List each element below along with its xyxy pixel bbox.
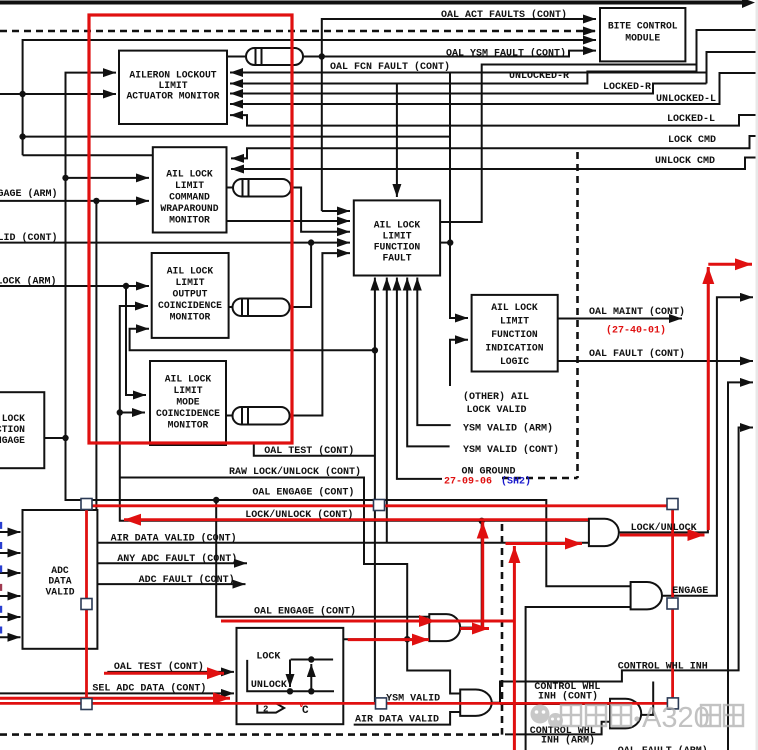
- svg-text:MONITOR: MONITOR: [169, 215, 210, 226]
- blue edge fragments: [0, 522, 2, 634]
- svg-text:LOCK: LOCK: [256, 652, 280, 663]
- svg-text:LOCK/UNLOCK: LOCK/UNLOCK: [631, 522, 697, 534]
- svg-text:UNLOCKED-L: UNLOCKED-L: [656, 94, 716, 105]
- junction J11: [447, 239, 453, 245]
- wire vertical to ADC box: [95, 201, 97, 510]
- junction J14: [479, 518, 485, 524]
- wire OAL TEST (CONT) upper: [254, 443, 375, 456]
- junction J10: [372, 347, 378, 353]
- svg-text:MONITOR: MONITOR: [168, 420, 209, 431]
- svg-text:OAL YSM FAULT (CONT): OAL YSM FAULT (CONT): [446, 48, 566, 60]
- svg-text:CONTROL WHL INH: CONTROL WHL INH: [618, 662, 708, 673]
- svg-text:FAULT: FAULT: [382, 253, 411, 264]
- box AILERON LOCKOUT LIMIT ACTUATOR MONITOR: [119, 51, 227, 124]
- wire wraparound monitor input1: [66, 177, 150, 179]
- wire LOCK (ARM) from left edge: [0, 285, 149, 287]
- wire third BITE input: [23, 40, 596, 155]
- red continuation to vertical: [436, 620, 514, 623]
- wire FF box output stub: [440, 242, 450, 244]
- wire output coincidence input3 jog: [130, 329, 375, 351]
- selection handles: [81, 499, 678, 710]
- wire ADC input 3: [0, 572, 21, 574]
- wire gate2 output stub: [492, 702, 500, 704]
- red vertical up right: [707, 267, 710, 530]
- wire LOCKED-R: [230, 84, 707, 94]
- box AIL LOCK LIMIT FUNCTION FAULT: [354, 200, 440, 275]
- wire aileron monitor input2 from left edge: [0, 93, 116, 95]
- box BITE CONTROL MODULE: [600, 8, 685, 61]
- wire node to FF input1: [322, 210, 350, 212]
- wire ADC input 2: [0, 552, 21, 554]
- wire OAL ENGAGE lower run: [216, 500, 429, 617]
- latch node dot b: [308, 688, 314, 694]
- svg-text:LIMIT: LIMIT: [500, 316, 529, 327]
- junction J5: [93, 198, 99, 204]
- wire engage gate output to right edge: [662, 297, 753, 595]
- svg-text:AIR DATA VALID: AIR DATA VALID: [355, 715, 439, 726]
- svg-text:AIL LOCK: AIL LOCK: [165, 374, 212, 385]
- svg-text:WRAPAROUND: WRAPAROUND: [160, 203, 218, 214]
- svg-text:2: 2: [263, 705, 268, 715]
- handle 3: [667, 499, 678, 510]
- wire ADC input 6: [0, 636, 21, 638]
- svg-text:YSM VALID (CONT): YSM VALID (CONT): [463, 444, 559, 456]
- wire gate3 output up: [641, 682, 653, 715]
- and gate ENGAGE: [631, 582, 662, 609]
- red OAL TEST arrow: [104, 672, 224, 675]
- svg-text:UNLOCKED-R: UNLOCKED-R: [509, 71, 569, 82]
- wire AIR DATA VALID long path to gate2: [97, 542, 589, 544]
- blue mark 5: [0, 606, 2, 613]
- svg-text:LIMIT: LIMIT: [173, 385, 202, 396]
- wire wraparound output1 through delay: [227, 188, 351, 232]
- svg-text:COINCIDENCE: COINCIDENCE: [156, 408, 220, 419]
- svg-text:LOCK/UNLOCK (CONT): LOCK/UNLOCK (CONT): [245, 509, 353, 521]
- junction J12: [404, 636, 410, 642]
- and gate G1: [429, 614, 460, 641]
- svg-text:ENGAGE: ENGAGE: [672, 586, 708, 597]
- svg-text:MODE: MODE: [176, 397, 199, 408]
- dashed separators: [0, 152, 578, 735]
- svg-text:LOCKED-L: LOCKED-L: [667, 114, 715, 125]
- wire VALID (CONT) from left edge: [0, 242, 350, 244]
- latch set arrow down: [289, 660, 291, 688]
- wire UNLOCKED-L: [230, 73, 758, 104]
- svg-text:OAL MAINT (CONT): OAL MAINT (CONT): [589, 306, 685, 318]
- wire FF output to top right: [440, 65, 696, 223]
- svg-text:LOGIC: LOGIC: [500, 356, 529, 367]
- svg-text:LOCKED-R: LOCKED-R: [603, 82, 651, 93]
- wire control whl inh vertical a3: [728, 382, 753, 750]
- junction J2: [19, 133, 25, 139]
- svg-text:BITE CONTROL: BITE CONTROL: [608, 21, 678, 32]
- svg-text:AIL LOCK: AIL LOCK: [374, 220, 421, 231]
- svg-text:OAL ACT FAULTS (CONT): OAL ACT FAULTS (CONT): [441, 9, 567, 21]
- wire right edge exit y30: [697, 30, 758, 72]
- wire aileron monitor input1 / engage vertical: [66, 73, 631, 587]
- wire OAL FCN FAULT row: [230, 72, 707, 74]
- wire ENGAGE (ARM) from left edge: [0, 200, 149, 202]
- blue mark 2: [0, 542, 2, 549]
- wire control whl inh (arm) jog: [505, 722, 610, 735]
- svg-text:INDICATION: INDICATION: [485, 343, 543, 354]
- latch reset arrow up: [310, 664, 312, 691]
- junction J6: [123, 283, 129, 289]
- svg-text:UNLOCK CMD: UNLOCK CMD: [655, 156, 715, 167]
- box AIL LOCK LIMIT OUTPUT COINCIDENCE MONITOR: [152, 253, 229, 338]
- svg-text:OAL ENGAGE (CONT): OAL ENGAGE (CONT): [252, 487, 354, 499]
- wire output coincidence delay output: [229, 243, 312, 307]
- box AIL LOCK FUNCTION ENGAGE (clipped left): [0, 392, 44, 468]
- red vertical on gate1 feed: [481, 522, 484, 629]
- handle 7: [376, 698, 387, 709]
- wire AIR DATA VALID underline into gate2: [354, 712, 461, 725]
- svg-text:OAL ENGAGE (CONT): OAL ENGAGE (CONT): [254, 606, 356, 618]
- wire wraparound output2: [227, 220, 351, 222]
- wire mode monitor delay output: [226, 253, 350, 415]
- delay capsule D1: [246, 48, 303, 65]
- wire ADC FAULT (CONT): [97, 583, 245, 585]
- wire FF bottom net4 to YSM VALID (CONT): [407, 278, 449, 447]
- svg-text:FUNCTION: FUNCTION: [0, 424, 25, 435]
- junction J13: [213, 497, 219, 503]
- handle 1: [81, 499, 92, 510]
- handle 6: [81, 699, 92, 710]
- svg-text:FUNCTION: FUNCTION: [374, 242, 421, 253]
- wire control whl inh net to right edge arrow a4: [500, 428, 753, 703]
- delay capsule D4: [233, 407, 290, 425]
- latch node dot a: [287, 688, 293, 694]
- blue mark 4: [0, 584, 2, 591]
- junction J8: [319, 53, 325, 59]
- delay capsule D3: [233, 299, 290, 317]
- junction J3: [62, 175, 68, 181]
- wire FF bottom net1 down to YSM row: [375, 278, 460, 704]
- junction J7: [117, 409, 123, 415]
- latch top rail: [291, 659, 334, 661]
- latch input bracket: [247, 660, 334, 691]
- wire aileron monitor delay output / OAL YSM FAULT: [227, 51, 596, 57]
- red LOCK/UNLOCK (CONT) arrow left: [124, 518, 588, 521]
- svg-text:VALID (CONT): VALID (CONT): [0, 232, 58, 244]
- red arrow into lock/unlock gate: [506, 542, 583, 545]
- svg-text:MONITOR: MONITOR: [170, 312, 211, 323]
- svg-text:LIMIT: LIMIT: [382, 231, 411, 242]
- svg-text:VALID: VALID: [45, 587, 74, 598]
- red lock/unlock output arrow: [620, 534, 705, 537]
- svg-text:RAW LOCK/UNLOCK (CONT): RAW LOCK/UNLOCK (CONT): [229, 466, 361, 478]
- red SEL ADC DATA arrow: [0, 697, 230, 700]
- svg-text:OAL FCN FAULT (CONT): OAL FCN FAULT (CONT): [330, 61, 450, 73]
- and gate LOCK/UNLOCK: [589, 519, 619, 546]
- latch node dot c: [308, 656, 314, 662]
- wire UNLOCKED-R: [230, 72, 697, 84]
- wire ADC input 5: [0, 616, 21, 618]
- wire FF bottom net2 to lock/unlock gate: [386, 278, 388, 543]
- wire SEL ADC DATA (CONT) into latch: [0, 692, 234, 694]
- red vertical annotation center: [513, 546, 516, 750]
- svg-text:MODULE: MODULE: [625, 33, 660, 44]
- svg-text:v: v: [299, 701, 304, 710]
- svg-text:COINCIDENCE: COINCIDENCE: [158, 300, 222, 311]
- svg-text:LOCK VALID: LOCK VALID: [467, 405, 527, 416]
- box AIL LOCK LIMIT MODE COINCIDENCE MONITOR: [150, 361, 226, 445]
- red vertical left annotation: [85, 504, 88, 704]
- svg-text:INH (ARM): INH (ARM): [541, 735, 595, 747]
- watermark: [531, 702, 744, 734]
- wire OAL FAULT (CONT) output: [558, 360, 753, 362]
- wire ADC input 1: [0, 531, 21, 533]
- handle 5: [667, 598, 678, 609]
- wire lock/unlock output under red: [619, 268, 708, 532]
- svg-text:LOCK CMD: LOCK CMD: [668, 135, 716, 146]
- wire FF bottom net3 to ON GROUND: [397, 278, 442, 479]
- wire (OTHER) AIL LOCK VALID to indication input2: [450, 340, 468, 386]
- box LOCK UNLOCK latch: [237, 628, 344, 724]
- svg-text:YSM VALID (ARM): YSM VALID (ARM): [463, 423, 553, 435]
- delay capsule D2: [233, 179, 291, 197]
- svg-text:OAL TEST (CONT): OAL TEST (CONT): [264, 445, 354, 457]
- svg-text:SEL ADC DATA (CONT): SEL ADC DATA (CONT): [92, 683, 206, 695]
- svg-text:AIR DATA VALID (CONT): AIR DATA VALID (CONT): [111, 533, 237, 545]
- wire OAL FCN FAULT branch to indication logic input1: [450, 73, 468, 319]
- svg-text:OUTPUT: OUTPUT: [173, 289, 208, 300]
- svg-text:ENGAGE: ENGAGE: [0, 435, 25, 446]
- svg-text:FUNCTION: FUNCTION: [491, 329, 538, 340]
- box AIL LOCK LIMIT COMMAND WRAPAROUND MONITOR: [153, 147, 227, 232]
- red line along OAL ENGAGE row: [87, 504, 673, 507]
- wire ADC input 4: [0, 595, 21, 597]
- wire UNLOCK CMD: [231, 158, 758, 170]
- svg-text:ADC FAULT (CONT): ADC FAULT (CONT): [139, 574, 235, 586]
- svg-text:AIL LOCK: AIL LOCK: [167, 266, 214, 277]
- wire gate1 output up to engage row: [460, 521, 481, 628]
- blue mark 6: [0, 627, 2, 634]
- wire left box output: [44, 437, 65, 439]
- box ADC DATA VALID: [23, 510, 98, 649]
- svg-text:(OTHER) AIL: (OTHER) AIL: [463, 391, 529, 403]
- wire FF top input: [396, 84, 398, 198]
- junction J1: [19, 91, 25, 97]
- svg-text:OAL FAULT (CONT): OAL FAULT (CONT): [589, 348, 685, 360]
- wire engage gate lower input from bottom edge: [526, 607, 631, 750]
- handle 2: [374, 500, 385, 511]
- page margin strip: [756, 0, 758, 750]
- svg-text:UNLOCK: UNLOCK: [251, 680, 287, 691]
- svg-text:ADC: ADC: [51, 565, 69, 576]
- wire mode monitor input2: [120, 412, 145, 414]
- and gate G3 control whl inh: [610, 699, 641, 729]
- svg-text:AIL LOCK: AIL LOCK: [491, 302, 538, 313]
- wire OAL ACT FAULTS (CONT): [322, 19, 596, 211]
- junction J9: [308, 239, 314, 245]
- red latch output arrow: [348, 638, 429, 641]
- dashed vertical sheet divider: [576, 152, 579, 478]
- red gate1 output arrow: [460, 627, 489, 630]
- svg-text:AIL LOCK: AIL LOCK: [166, 169, 213, 180]
- wire LOCKED-L: [230, 115, 758, 126]
- svg-text:LIMIT: LIMIT: [175, 180, 204, 191]
- svg-text:INH (CONT): INH (CONT): [538, 691, 598, 703]
- and gate G2 ysm/airdata: [460, 690, 492, 716]
- wire FF bottom net5 to YSM VALID (ARM): [417, 278, 450, 426]
- wire latch output to and gate: [343, 638, 429, 640]
- red OAL ENGAGE arrow to gate1: [221, 620, 436, 623]
- wire OAL MAINT (CONT) output: [558, 318, 682, 320]
- box texts: [0, 21, 678, 598]
- latch internals: [247, 660, 334, 692]
- wire control whl inh (cont) row: [500, 703, 610, 705]
- svg-text:LIMIT: LIMIT: [158, 80, 187, 91]
- box AIL LOCK LIMIT FUNCTION INDICATION LOGIC: [472, 295, 558, 372]
- svg-text:(27-40-01): (27-40-01): [606, 325, 666, 337]
- svg-text:YSM VALID: YSM VALID: [386, 694, 440, 705]
- svg-text:AIL LOCK: AIL LOCK: [0, 413, 25, 424]
- svg-text:DATA: DATA: [48, 576, 71, 587]
- svg-text:OAL TEST (CONT): OAL TEST (CONT): [114, 661, 204, 673]
- blue mark 1: [0, 522, 2, 529]
- junction J4: [62, 435, 68, 441]
- dashed bottom border: [0, 733, 502, 736]
- wire OAL TEST (CONT) into latch: [107, 671, 234, 673]
- dashed horizontal jog: [502, 477, 578, 480]
- red vertical right annotation: [671, 504, 674, 703]
- svg-text:COMMAND: COMMAND: [169, 192, 210, 203]
- wire vertical to mode monitor input1: [126, 286, 146, 395]
- svg-text:OAL FAULT (ARM): OAL FAULT (ARM): [618, 745, 708, 750]
- wire stub at left y155: [23, 154, 153, 156]
- svg-text:(SH2): (SH2): [501, 476, 531, 488]
- svg-text:27-09-06: 27-09-06: [444, 477, 492, 488]
- svg-text:ACTUATOR MONITOR: ACTUATOR MONITOR: [126, 91, 219, 102]
- wire RAW LOCK/UNLOCK to engage gate: [120, 478, 460, 694]
- wire thick top bus bar: [0, 0, 755, 8]
- svg-text:AILERON LOCKOUT: AILERON LOCKOUT: [129, 70, 216, 81]
- handle 8: [667, 698, 678, 709]
- svg-text:ENGAGE (ARM): ENGAGE (ARM): [0, 188, 58, 200]
- wire locked-r right edge exit y52: [707, 52, 758, 84]
- wire y136 branch: [23, 136, 450, 138]
- wire dashed input to BITE: [0, 30, 596, 33]
- svg-text:A320: A320: [642, 702, 710, 734]
- wire output coincidence input2 / raw net vertical: [120, 306, 589, 521]
- dashed vertical lower: [501, 524, 504, 735]
- svg-text:LOCK (ARM): LOCK (ARM): [0, 276, 57, 288]
- handle 4: [81, 599, 92, 610]
- blue mark 3: [0, 565, 2, 572]
- red line along YSM row: [0, 702, 673, 705]
- red arrow to right edge: [708, 263, 752, 266]
- wire LOCK CMD: [231, 136, 758, 158]
- wire ANY ADC FAULT (CONT): [97, 562, 247, 564]
- latch flag 2: [257, 703, 284, 712]
- svg-text:LIMIT: LIMIT: [175, 277, 204, 288]
- red monitor group rectangle: [89, 15, 292, 443]
- svg-text:ANY ADC FAULT (CONT): ANY ADC FAULT (CONT): [117, 553, 237, 565]
